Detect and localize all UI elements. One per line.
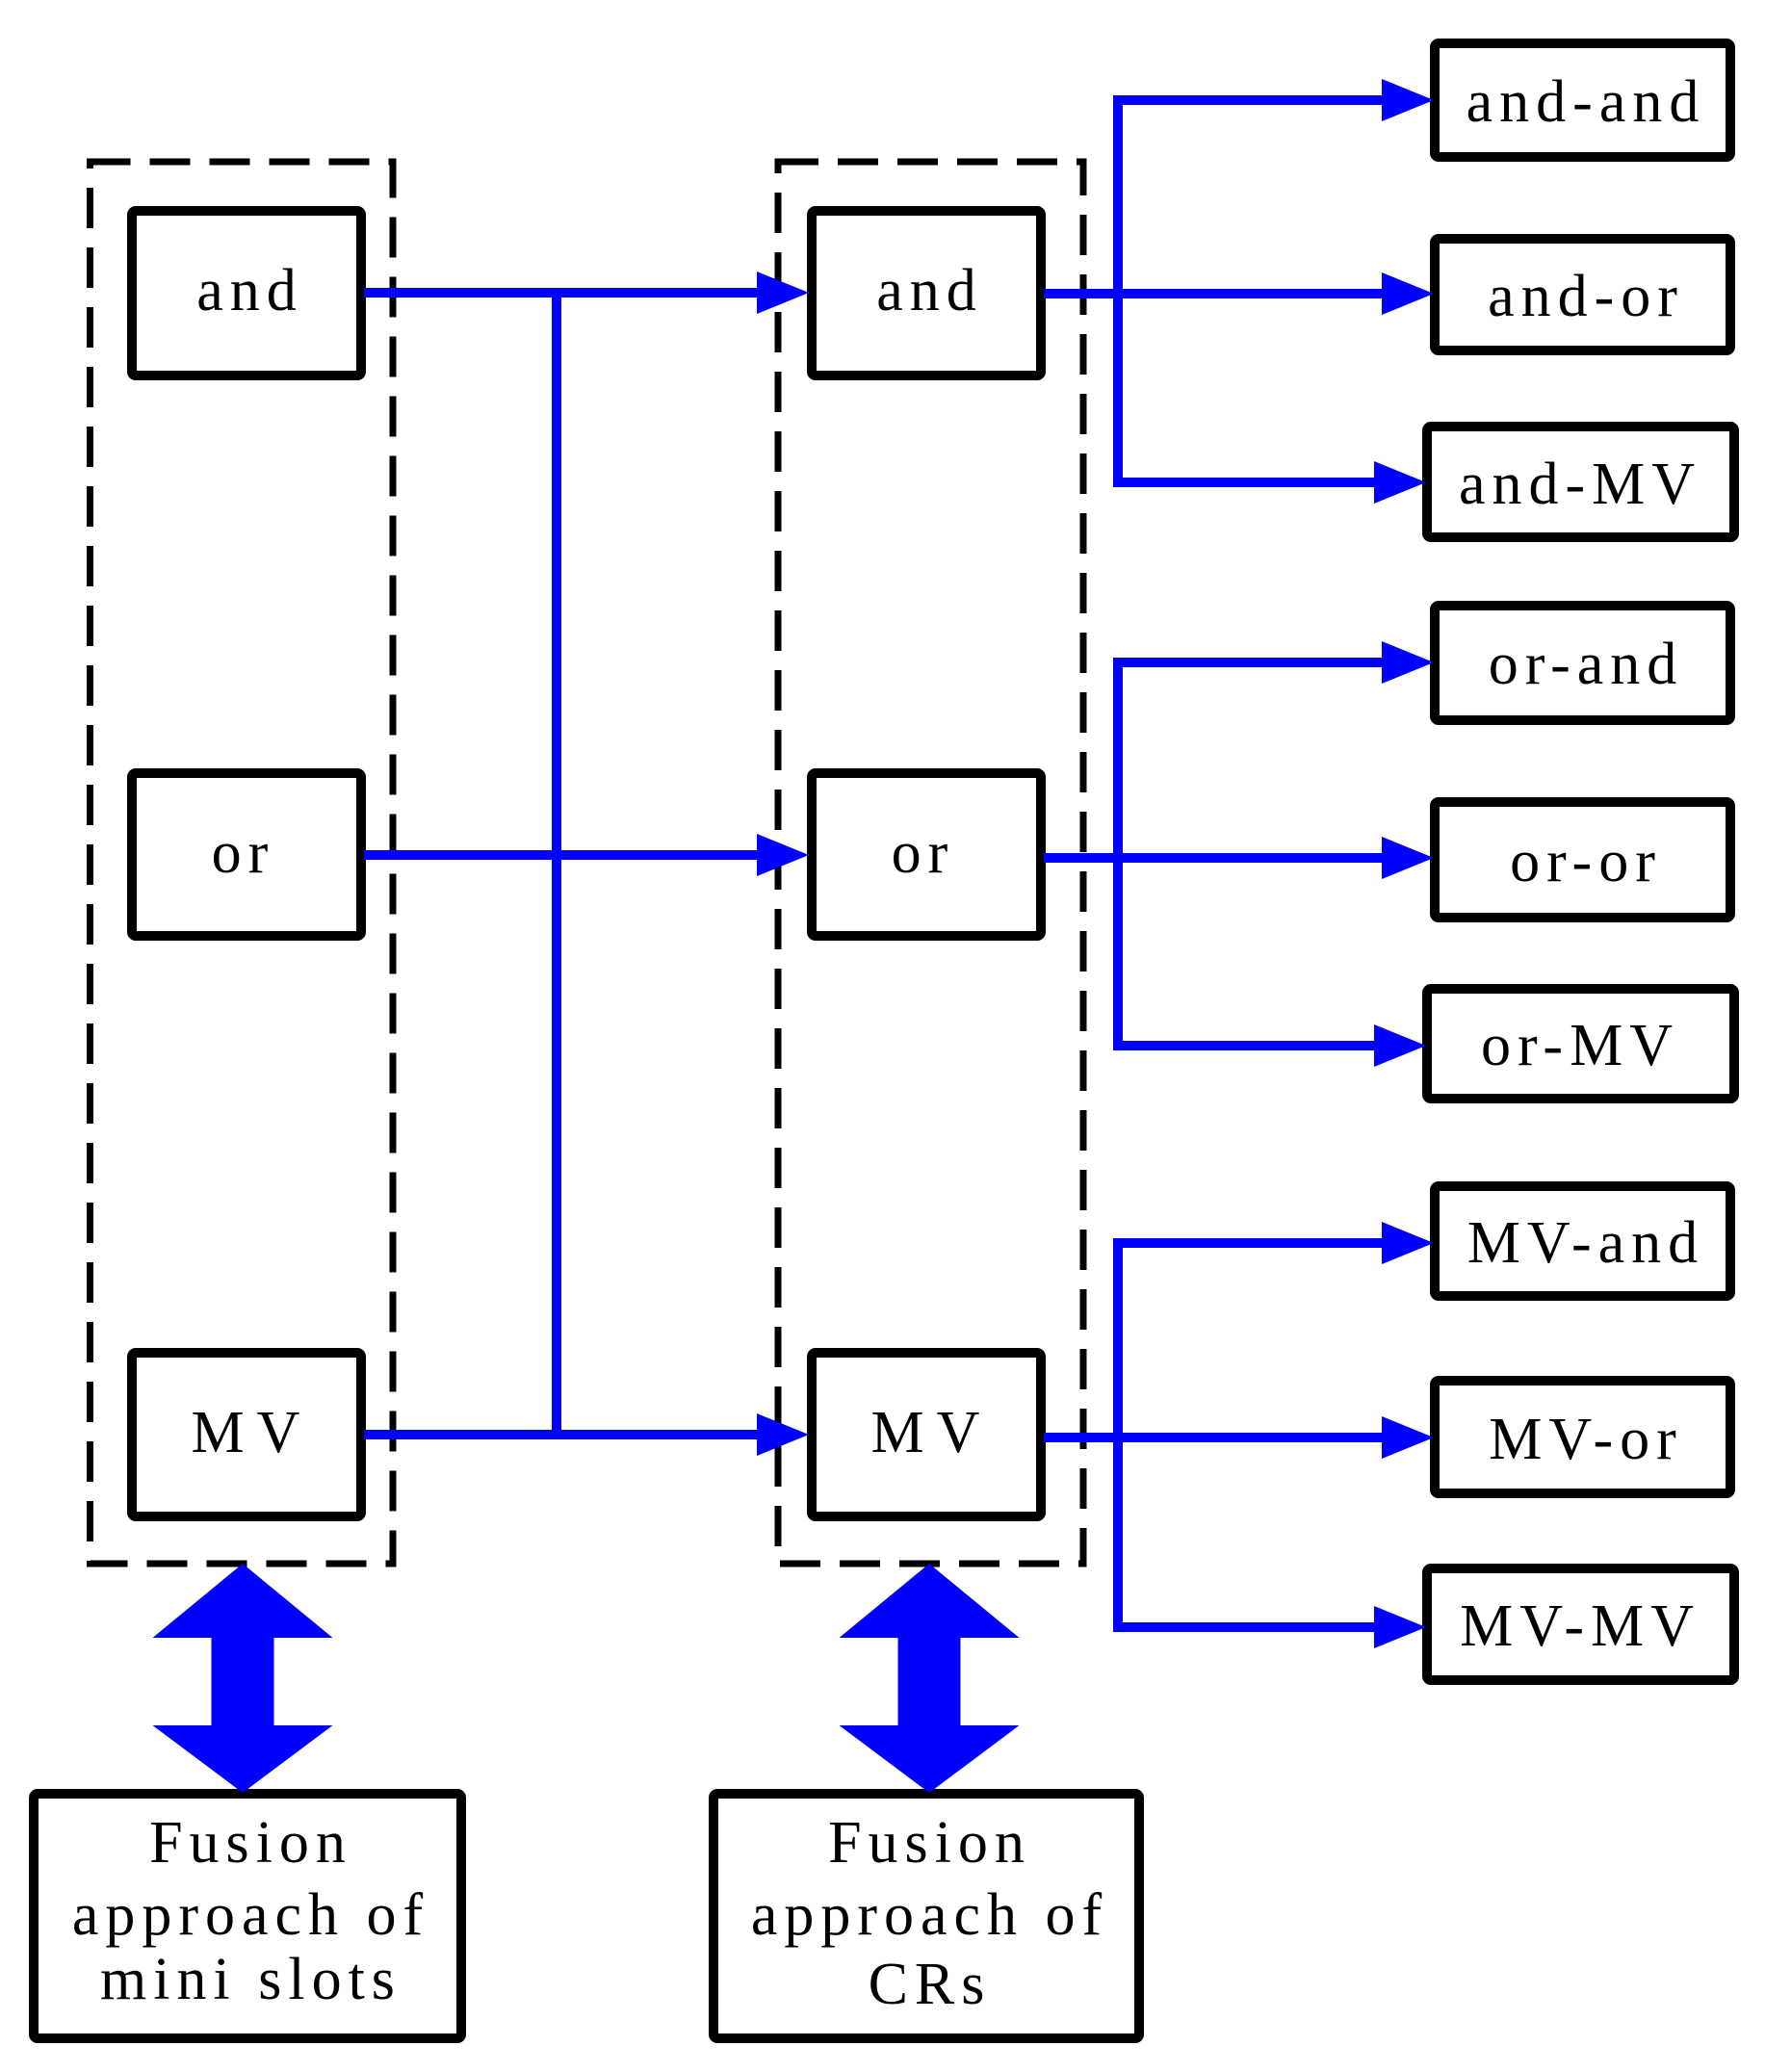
- box and-MV: [1427, 427, 1734, 537]
- svg-text:and-MV: and-MV: [1459, 452, 1701, 517]
- wire: MV middle box to MV-or box: [1044, 1416, 1434, 1459]
- svg-text:and: and: [196, 258, 303, 324]
- wire: MV branch bus: [1113, 1243, 1123, 1627]
- svg-text:or: or: [892, 820, 955, 886]
- svg-text:approach of: approach of: [72, 1882, 429, 1948]
- svg-text:CRs: CRs: [869, 1952, 992, 2017]
- box Fusion approach of CRs: [714, 1794, 1139, 2038]
- svg-text:MV-or: MV-or: [1489, 1407, 1683, 1472]
- wire: MV row, left box to middle box: [364, 1413, 809, 1456]
- wire: or middle box to or-or box: [1044, 837, 1434, 879]
- wire: and middle box to and-or box: [1044, 272, 1434, 315]
- svg-text:and-or: and-or: [1488, 264, 1684, 329]
- wire: and branch bus: [1113, 100, 1123, 482]
- box MV-MV: [1427, 1568, 1734, 1680]
- dashed group box: fusion approach of mini slots: [91, 162, 394, 1564]
- box or-MV: [1427, 989, 1734, 1099]
- svg-text:or-and: or-and: [1489, 632, 1684, 697]
- wire: and row, left box to middle box: [364, 272, 809, 314]
- double arrow: CRs group to fusion box: [840, 1564, 1020, 1793]
- box or (middle column): [812, 773, 1041, 936]
- svg-text:MV-and: MV-and: [1467, 1210, 1704, 1276]
- svg-text:and: and: [876, 258, 983, 324]
- box and-or: [1435, 239, 1730, 350]
- box Fusion approach of mini slots: [34, 1794, 461, 2038]
- wire: branch to and-and: [1113, 79, 1434, 121]
- box and-and: [1435, 43, 1730, 157]
- svg-text:Fusion: Fusion: [149, 1810, 352, 1876]
- svg-text:MV-MV: MV-MV: [1460, 1593, 1700, 1659]
- box MV-and: [1435, 1186, 1730, 1296]
- wire: branch to or-MV: [1113, 1024, 1426, 1067]
- wire: branch to or-and: [1113, 641, 1434, 684]
- svg-text:or-or: or-or: [1510, 829, 1662, 894]
- double arrow: mini slots group to fusion box: [153, 1564, 333, 1793]
- box MV (left column): [132, 1353, 361, 1516]
- wire: or branch bus: [1113, 662, 1123, 1046]
- box and (left column): [132, 211, 361, 376]
- svg-text:and-and: and-and: [1467, 69, 1706, 135]
- svg-text:Fusion: Fusion: [828, 1810, 1031, 1876]
- svg-text:MV: MV: [192, 1400, 313, 1465]
- wire: branch to MV-MV: [1113, 1606, 1426, 1648]
- box and (middle column): [812, 211, 1041, 376]
- wire: branch to and-MV: [1113, 461, 1426, 504]
- box or (left column): [132, 773, 361, 936]
- dashed group box: fusion approach of CRs: [778, 162, 1083, 1564]
- wire: branch to MV-and: [1113, 1222, 1434, 1264]
- box MV (middle column): [812, 1353, 1041, 1516]
- svg-text:mini slots: mini slots: [100, 1947, 402, 2012]
- wire: or row, left box to middle box: [364, 834, 809, 876]
- svg-text:MV: MV: [871, 1400, 993, 1465]
- svg-text:or: or: [212, 820, 275, 886]
- svg-text:or-MV: or-MV: [1481, 1013, 1679, 1078]
- svg-text:approach of: approach of: [751, 1882, 1108, 1948]
- wire: vertical bus between columns: [552, 293, 561, 1435]
- box MV-or: [1435, 1381, 1730, 1493]
- box or-or: [1435, 802, 1730, 918]
- box or-and: [1435, 606, 1730, 720]
